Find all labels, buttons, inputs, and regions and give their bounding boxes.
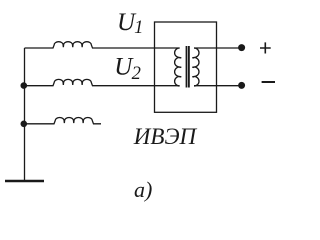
svg-text:а): а): [134, 177, 152, 202]
svg-text:ИВЭП: ИВЭП: [133, 124, 198, 149]
svg-text:2: 2: [132, 64, 141, 84]
svg-text:1: 1: [134, 18, 143, 38]
